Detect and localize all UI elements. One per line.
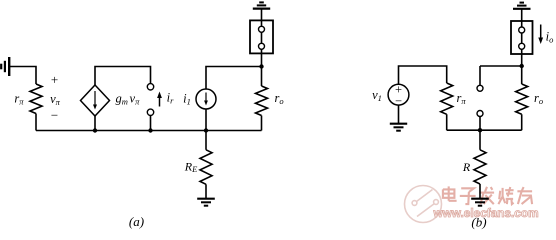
svg-text:−: −	[51, 108, 58, 123]
svg-text:(b): (b)	[471, 215, 486, 230]
svg-text:R: R	[462, 160, 471, 174]
svg-text:(a): (a)	[129, 214, 144, 229]
svg-text:+: +	[51, 72, 58, 87]
